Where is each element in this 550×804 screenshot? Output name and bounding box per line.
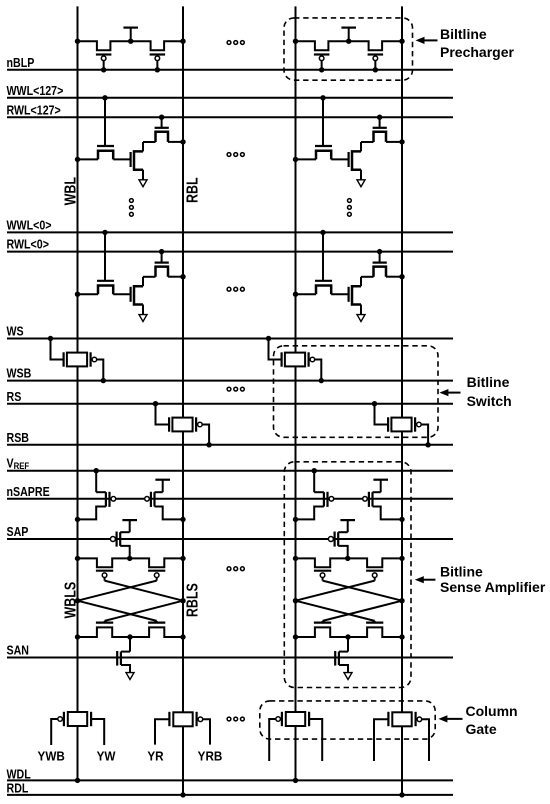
power VDD (precharger) col B (341, 28, 356, 42)
transistor write column-gate pass gate col B (YWB/YW) (269, 712, 322, 783)
wire nBLP (net nBLP) (7, 69, 453, 71)
wire cross-couple diagonals col B (293, 581, 405, 623)
svg-text:YW: YW (97, 749, 116, 764)
svg-text:Column: Column (466, 703, 518, 719)
svg-text:Switch: Switch (467, 393, 512, 409)
svg-text:YWB: YWB (38, 749, 65, 764)
wire RDL (net RDL) (7, 794, 453, 796)
wire cross-coupled PMOS source rail col B (293, 556, 405, 568)
wire WBL column A (vertical bitline) (77, 6, 79, 780)
label RBLS (rotated) (184, 583, 202, 617)
svg-text:SAP: SAP (7, 524, 29, 539)
label net RS (7, 389, 22, 404)
wire SAN (net SAN) (7, 657, 453, 659)
transistor read bitline-switch pass gate col A (RS/RSB) (153, 401, 212, 447)
transistor cross-coupled PMOS right col B (gate) (366, 571, 383, 581)
label net nSAPRE (7, 484, 50, 499)
svg-text:Bitline: Bitline (467, 374, 510, 390)
label net WDL (7, 766, 31, 781)
transistor read NMOS cell<0> col B (361, 249, 405, 279)
transistor cross-coupled PMOS right col A (gate) (148, 571, 165, 581)
svg-text:RBL: RBL (184, 177, 202, 203)
transistor write NMOS cell<127> col B (293, 95, 349, 162)
label WBLS (rotated) (62, 582, 80, 619)
transistor read NMOS cell<127> col A (143, 115, 186, 145)
label net WWL0 (7, 217, 52, 232)
transistor SAP tail PMOS col B (328, 520, 355, 558)
svg-text:nBLP: nBLP (7, 55, 35, 70)
label net SAN (7, 643, 29, 658)
label signal YRB (198, 749, 223, 764)
transistor write NMOS cell<0> col A (75, 230, 131, 297)
node ellipsis (row continuation dots) (130, 199, 134, 217)
svg-text:WSB: WSB (7, 366, 32, 381)
svg-text:RS: RS (7, 389, 22, 404)
svg-text:YR: YR (147, 749, 163, 764)
node Column Gate block (dashed outline) (260, 701, 435, 739)
wire WDL (net WDL) (7, 779, 453, 781)
label Column Gate with arrow (438, 703, 517, 737)
svg-text:SAN: SAN (7, 643, 29, 658)
node ellipsis (continuation dots) (227, 567, 244, 571)
wire precharge rail col B (293, 39, 405, 51)
svg-text:WWL<127>: WWL<127> (7, 83, 64, 98)
label net RDL (7, 781, 29, 796)
label net RWL0 (7, 237, 49, 252)
label WBL (rotated) (62, 177, 80, 206)
label signal YR (147, 749, 163, 764)
label net RSB (7, 430, 30, 445)
transistor cross-coupled NMOS left col A (gate) (96, 621, 113, 623)
svg-text:Biltline: Biltline (440, 26, 487, 42)
transistor cross-coupled PMOS left col B (gate) (314, 571, 331, 581)
label net WSB (7, 366, 32, 381)
transistor read NMOS cell<127> col B (361, 115, 405, 145)
transistor storage NMOS cell<127> col A (131, 142, 143, 180)
transistor write column-gate pass gate col A (YWB/YW) (51, 712, 104, 783)
transistor precharge PMOS P1 col B (gate) (314, 55, 330, 73)
svg-text:RSB: RSB (7, 430, 30, 445)
wire RSB (net RSB) (7, 444, 453, 446)
transistor read NMOS cell<0> col A (143, 249, 186, 279)
transistor SAP tail PMOS col A (110, 520, 137, 558)
wire RBL column B (vertical bitline) (401, 6, 403, 795)
wire SAP (net SAP) (7, 538, 453, 540)
transistor cross-coupled NMOS right col B (gate) (366, 621, 383, 623)
svg-text:Bitline: Bitline (440, 564, 483, 580)
transistor cross-coupled NMOS right col A (gate) (148, 621, 165, 623)
ground (SAN tail col A) (126, 673, 134, 680)
wire cross-coupled PMOS source rail col A (75, 556, 186, 568)
transistor read bitline-switch pass gate col B (RS/RSB) (372, 401, 431, 447)
wire nSAPRE (net nSAPRE) (7, 498, 453, 500)
transistor storage NMOS cell<0> col B (349, 277, 361, 315)
wire cross-coupled NMOS source rail col A (75, 627, 186, 639)
svg-text:Precharger: Precharger (440, 44, 514, 60)
svg-text:WBL: WBL (62, 177, 80, 206)
wire RWL127 (net RWL&lt;127&gt;) (7, 116, 453, 118)
transistor write NMOS cell<127> col A (75, 95, 131, 162)
transistor precharge PMOS P2 col B (gate) (368, 55, 384, 73)
ground (cell<0> col B) (357, 315, 365, 322)
node ellipsis (continuation dots) (227, 287, 244, 291)
transistor storage NMOS cell<0> col A (131, 277, 143, 315)
ground (cell<0> col A) (139, 315, 147, 322)
svg-text:nSAPRE: nSAPRE (7, 484, 50, 499)
label signal YW (97, 749, 116, 764)
wire WWL0 (net WWL&lt;0&gt;) (7, 231, 453, 233)
node Bitline Precharger block (dashed outline) (284, 18, 413, 80)
node ellipsis (continuation dots) (227, 41, 244, 45)
wire cross-couple diagonals col A (75, 581, 186, 623)
power VDD (precharger) col A (123, 28, 138, 42)
label net nBLP (7, 55, 35, 70)
svg-text:WDL: WDL (7, 766, 31, 781)
transistor write bitline-switch pass gate col A (WS/WSB) (48, 336, 106, 384)
wire VREF (net VREF) (7, 470, 453, 472)
svg-text:RWL<0>: RWL<0> (7, 237, 49, 252)
node ellipsis (continuation dots) (227, 387, 244, 391)
wire WS (net WS) (7, 338, 453, 340)
transistor precharge PMOS (VDD side) col A (145, 480, 186, 522)
node ellipsis (continuation dots) (227, 717, 244, 721)
svg-text:WS: WS (7, 324, 24, 339)
wire precharge rail col A (75, 39, 186, 51)
transistor SAN tail NMOS col B (335, 637, 348, 673)
label net WS (7, 324, 24, 339)
node ellipsis (row continuation dots) (348, 199, 352, 217)
transistor precharge PMOS P1 col A (gate) (96, 55, 112, 73)
transistor equalize PMOS (VREF side) col B (293, 468, 334, 522)
wire cross-coupled NMOS source rail col B (293, 627, 405, 639)
svg-text:RDL: RDL (7, 781, 29, 796)
label Bitline Switch with arrow (439, 374, 511, 409)
transistor read column-gate pass gate col A (YR/YRB) (155, 712, 210, 798)
transistor precharge PMOS P2 col A (gate) (150, 55, 166, 73)
label net RWL127 (7, 102, 61, 117)
svg-text:WWL<0>: WWL<0> (7, 217, 52, 232)
label signal YWB (38, 749, 65, 764)
label Biltline Precharger with arrow (416, 26, 515, 60)
wire WSB (net WSB) (7, 380, 453, 382)
ground (SAN tail col B) (344, 673, 352, 680)
transistor cross-coupled PMOS left col A (gate) (96, 571, 113, 581)
transistor precharge PMOS (VDD side) col B (363, 480, 405, 522)
transistor SAN tail NMOS col A (117, 637, 130, 673)
ground (cell<127> col A) (139, 180, 147, 187)
transistor cross-coupled NMOS left col B (gate) (314, 621, 331, 623)
node Bitline Switch block (dashed outline) (274, 346, 439, 438)
transistor write NMOS cell<0> col B (293, 230, 349, 297)
label net WWL127 (7, 83, 64, 98)
svg-text:RBLS: RBLS (184, 583, 202, 617)
node Bitline Sense Amplifier block (dashed outline) (284, 462, 411, 688)
transistor write bitline-switch pass gate col B (WS/WSB) (266, 336, 324, 384)
label net SAP (7, 524, 29, 539)
transistor equalize PMOS (VREF side) col A (75, 468, 116, 522)
wire RWL0 (net RWL&lt;0&gt;) (7, 251, 453, 253)
ground (cell<127> col B) (357, 180, 365, 187)
wire RS (net RS) (7, 403, 453, 405)
svg-text:Gate: Gate (466, 721, 497, 737)
label Bitline Sense Amplifier with arrow (415, 564, 546, 595)
wire WWL127 (net WWL&lt;127&gt;) (7, 97, 453, 99)
label net VREF (7, 456, 30, 472)
wire WBL column B (vertical bitline) (295, 6, 297, 780)
wire RBL column A (vertical bitline) (182, 6, 184, 795)
svg-text:YRB: YRB (198, 749, 223, 764)
svg-text:RWL<127>: RWL<127> (7, 102, 61, 117)
label RBL (rotated) (184, 177, 202, 203)
node ellipsis (continuation dots) (227, 153, 244, 157)
svg-text:Sense Amplifier: Sense Amplifier (440, 579, 546, 595)
transistor read column-gate pass gate col B (YR/YRB) (374, 712, 429, 798)
transistor storage NMOS cell<127> col B (349, 142, 361, 180)
